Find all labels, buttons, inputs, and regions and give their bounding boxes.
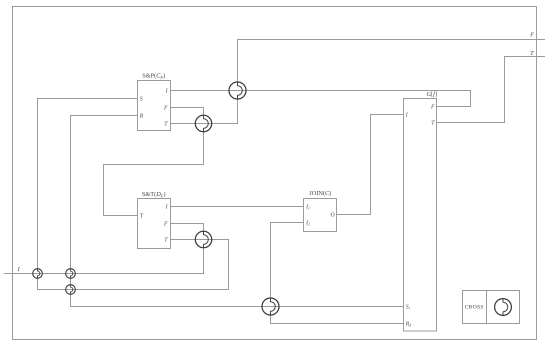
svg-text:Rd: Rd bbox=[405, 322, 412, 328]
module G[f] U4 bbox=[404, 99, 437, 332]
svg-text:R: R bbox=[139, 114, 144, 120]
cross X3 bbox=[195, 231, 211, 247]
svg-text:T: T bbox=[431, 121, 435, 127]
wire net K: JOIN.O to G[f].I bbox=[337, 115, 404, 215]
svg-text:I: I bbox=[165, 205, 169, 211]
wire net B: S&P.R to G[f].S_t (via CROSS X6, X7, X4) bbox=[71, 116, 404, 307]
svg-text:I: I bbox=[165, 89, 169, 95]
cross X6 bbox=[66, 269, 76, 279]
svg-text:St: St bbox=[406, 305, 411, 311]
module S&P(C_F) U1 bbox=[138, 81, 171, 131]
wire net J: G[f].T to output T bbox=[437, 57, 546, 123]
svg-text:O: O bbox=[331, 213, 336, 219]
wire net H: S&P.T to output F (via CROSS X2, X1) bbox=[171, 40, 546, 124]
wire net I: S&P.I to G[f].F (via CROSS X1) bbox=[171, 91, 471, 107]
svg-text:S&P(CF): S&P(CF) bbox=[142, 73, 165, 80]
svg-text:JOIN(C): JOIN(C) bbox=[309, 190, 331, 197]
wire net G: S&P.F to S&T.T left pin (via CROSS X2) bbox=[104, 108, 204, 216]
svg-text:T: T bbox=[530, 50, 534, 57]
wire net C: input I to S&T.F (via CROSS X5, X6, X3) bbox=[4, 224, 204, 274]
module JOIN(C) U3 bbox=[304, 199, 337, 232]
svg-text:F: F bbox=[163, 106, 168, 112]
svg-text:T: T bbox=[164, 122, 168, 128]
svg-text:S&T(DF): S&T(DF) bbox=[142, 191, 166, 198]
cross X5 bbox=[33, 269, 43, 279]
wire net E: S&T.I to JOIN.I1 bbox=[171, 206, 304, 208]
svg-text:CROSS: CROSS bbox=[465, 305, 484, 311]
svg-text:F: F bbox=[529, 32, 534, 39]
svg-text:S: S bbox=[140, 97, 143, 103]
wire net A: S&P.S to S&T.T (via CROSS X5, X7, X3) bbox=[38, 99, 229, 290]
svg-text:F: F bbox=[430, 105, 435, 111]
cross X2 bbox=[195, 115, 211, 131]
wire net M: JOIN.I2 to G[f].R_d (via CROSS X4) bbox=[271, 223, 404, 324]
svg-text:G[f]: G[f] bbox=[426, 91, 437, 98]
cross X1 bbox=[229, 82, 246, 99]
legend cross symbol bbox=[495, 299, 512, 316]
svg-text:I: I bbox=[405, 113, 409, 119]
legend box CROSS bbox=[463, 291, 520, 324]
svg-text:T: T bbox=[140, 214, 144, 220]
cross X4 bbox=[262, 298, 279, 315]
svg-text:I2: I2 bbox=[305, 221, 310, 227]
svg-text:F: F bbox=[163, 222, 168, 228]
svg-text:I: I bbox=[17, 266, 21, 273]
cross X7 bbox=[66, 285, 76, 295]
svg-text:I1: I1 bbox=[305, 205, 310, 211]
module S&T(D_F) U2 bbox=[138, 199, 171, 249]
svg-text:T: T bbox=[164, 238, 168, 244]
